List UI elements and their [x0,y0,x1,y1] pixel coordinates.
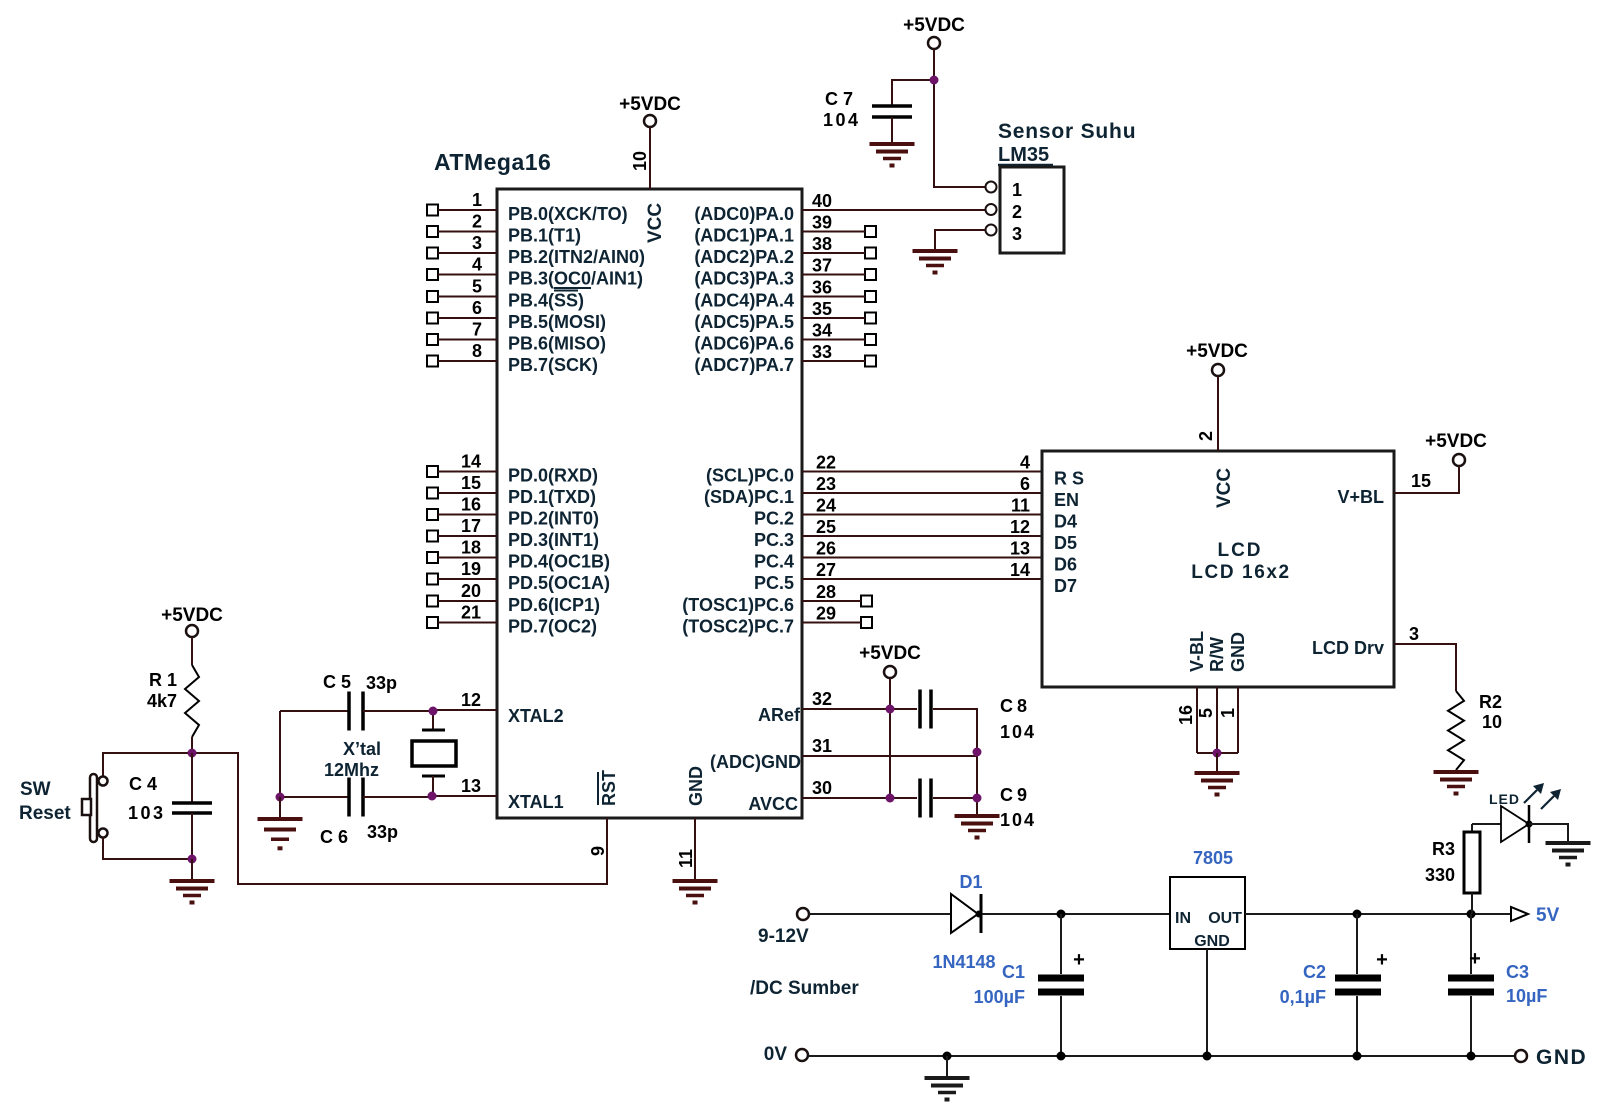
svg-text:3: 3 [472,233,482,253]
wire input to D1 [809,913,950,915]
svg-text:C8: C8 [1000,696,1031,716]
junction XTAL2/C5/crystal [429,707,438,716]
svg-text:8: 8 [472,341,482,361]
svg-text:C9: C9 [1000,785,1031,805]
wire junction to SW Reset top [103,753,192,777]
label D1 [959,872,982,892]
svg-text:PD.1(TXD): PD.1(TXD) [508,487,596,507]
wire VCC pin 10 [630,127,650,189]
wire GND pin 11 [676,818,696,881]
svg-text:36: 36 [812,278,832,298]
svg-text:4: 4 [472,255,482,275]
pin 36 (ADC4)PA.4 wire [802,278,876,303]
pin label PB.3(OC0/AIN1) [508,269,643,289]
resistor R2 [1448,691,1464,770]
pin label (ADC0)PA.0 [694,204,794,224]
wire left rail C5/C6 [279,711,281,797]
pin label VCC of LCD (rotated) [1214,468,1235,508]
pin label D7 of LCD [1054,576,1077,596]
pin label (ADC6)PA.6 [694,334,794,354]
svg-text:37: 37 [812,256,832,276]
pin 7 PB.6 wire and terminal [427,320,497,346]
svg-text:5V: 5V [1536,905,1560,926]
pin label PC.2 [754,509,794,529]
wire V-BL pin 16 [1176,687,1197,753]
svg-text:PD.4(OC1B): PD.4(OC1B) [508,552,610,572]
crystal X1 12Mhz [412,710,456,796]
svg-text:PD.0(RXD): PD.0(RXD) [508,466,598,486]
diode D1 1N4148 [951,894,983,933]
svg-text:LED: LED [1489,791,1520,807]
svg-text:13: 13 [461,776,481,796]
svg-text:PC.4: PC.4 [754,552,794,572]
svg-text:ARef: ARef [758,705,801,725]
svg-text:LM35: LM35 [998,144,1049,166]
svg-text:1: 1 [1012,180,1022,200]
svg-text:PB.1(T1): PB.1(T1) [508,226,581,246]
wire left rail to ground [279,797,281,819]
pin 6 PB.5 wire and terminal [427,298,497,324]
pin 39 (ADC1)PA.1 wire [802,213,876,238]
pin label (SCL)PC.0 [706,466,794,486]
junction +5VDC/C7 [930,76,939,85]
svg-text:PB.4(SS): PB.4(SS) [508,291,584,311]
pin 16 PD.2 wire and terminal [427,495,497,521]
pin label D5 of LCD [1054,533,1077,553]
pin 29 (TOSC2)PC.7 wire [802,604,872,629]
svg-text:(TOSC2)PC.7: (TOSC2)PC.7 [682,617,794,637]
label Xtal 12Mhz [324,739,381,780]
pin 34 (ADC6)PA.6 wire [802,321,876,346]
svg-text:18: 18 [461,538,481,558]
svg-text:D6: D6 [1054,555,1077,575]
resistor R3 [1464,824,1480,914]
svg-text:3: 3 [1012,224,1022,244]
svg-text:+5VDC: +5VDC [1425,431,1487,452]
svg-text:Sensor Suhu: Sensor Suhu [998,120,1136,143]
svg-text:PB.5(MOSI): PB.5(MOSI) [508,312,606,332]
wire R1 bottom to junction [191,737,193,753]
pin 25 PC.3 wire [802,517,1042,537]
svg-text:4k7: 4k7 [147,691,177,711]
pin label (ADC3)PA.3 [694,269,794,289]
svg-text:+5VDC: +5VDC [903,15,965,36]
junction R1/C4/SW [188,749,197,758]
svg-text:27: 27 [816,560,836,580]
svg-text:38: 38 [812,234,832,254]
svg-text:ATMega16: ATMega16 [434,149,551,175]
svg-text:R 1: R 1 [149,670,177,690]
wire C7 branch [892,80,934,106]
pin label (ADC1)PA.1 [694,226,794,246]
pin label (ADC7)PA.7 [694,355,794,375]
pin label PD.2(INT0) [508,509,599,529]
label /DC Sumber [750,978,859,999]
ground on bottom rail [925,1078,970,1102]
svg-text:VCC: VCC [1214,468,1235,508]
pin 35 (ADC5)PA.5 wire [802,299,876,324]
pin 33 (ADC7)PA.7 wire [802,342,876,367]
svg-text:4: 4 [1020,453,1030,473]
svg-text:40: 40 [812,191,832,211]
svg-text:104: 104 [1000,810,1036,830]
junction C9/ground rail [973,794,982,803]
power +5VDC terminal near ARef [859,643,921,678]
label 1N4148 [932,952,995,972]
svg-text:14: 14 [461,452,481,472]
junction C2/rail [1353,910,1362,919]
pin label PB.0(XCK/TO) [508,204,628,224]
pin label (SDA)PC.1 [704,487,794,507]
svg-text:PB.3(OC0/AIN1): PB.3(OC0/AIN1) [508,269,643,289]
pin label LCD Drv [1312,638,1384,658]
capacitor C1 (electrolytic) [1038,914,1085,1056]
svg-text:11: 11 [1011,496,1030,516]
pin label VCC (rotated) [645,203,666,243]
capacitor C6 [280,778,432,817]
wire XTAL2 pin 12 [433,690,497,710]
svg-text:2: 2 [1196,431,1216,441]
pin 20 PD.6 wire and terminal [427,581,497,607]
svg-text:PD.2(INT0): PD.2(INT0) [508,509,599,529]
svg-text:32: 32 [812,689,832,709]
svg-text:OUT: OUT [1208,910,1242,927]
svg-text:12Mhz: 12Mhz [324,760,379,780]
svg-text:PD.3(INT1): PD.3(INT1) [508,530,599,550]
pin 2 PB.1 wire and terminal [427,212,497,238]
label LCD 16x2 [1191,562,1290,583]
pin 1 PB.0 wire and terminal [427,190,497,216]
pin 28 (TOSC1)PC.6 wire [802,582,872,607]
capacitor C7 [872,106,912,117]
display U3 LCD body [1042,451,1394,687]
svg-text:C7: C7 [825,89,858,109]
svg-text:RST: RST [599,770,619,806]
pin 5 PB.4 wire and terminal [427,277,497,303]
svg-text:3: 3 [1409,624,1419,644]
terminal 0V input [764,1044,808,1065]
pin 17 PD.3 wire and terminal [427,516,497,542]
svg-text:C3: C3 [1506,962,1529,982]
pin 8 PB.7 wire and terminal [427,341,497,367]
svg-text:15: 15 [461,473,481,493]
svg-text:1: 1 [1218,708,1238,718]
svg-text:39: 39 [812,213,832,233]
label R3 330 [1425,839,1455,885]
svg-text:PC.5: PC.5 [754,573,794,593]
svg-text:C1: C1 [1002,962,1025,982]
svg-text:10µF: 10µF [1506,986,1547,1006]
svg-text:(ADC7)PA.7: (ADC7)PA.7 [694,355,794,375]
svg-text:7: 7 [472,320,482,340]
svg-text:25: 25 [816,517,836,537]
pin label PB.2(ITN2/AIN0) [508,247,645,267]
wire C7 to ground [891,117,893,144]
svg-text:(SDA)PC.1: (SDA)PC.1 [704,487,794,507]
pin label PD.4(OC1B) [508,552,610,572]
pin label EN of LCD [1054,490,1079,510]
label LM35 (underlined) [998,144,1053,166]
junction bottom rail ground stub [943,1052,952,1061]
junction LCD bottom pins [1213,749,1222,758]
svg-text:16: 16 [461,495,481,515]
pin label GND of LCD (rotated) [1228,632,1248,672]
svg-text:D1: D1 [959,872,982,892]
label C6 33p [320,822,398,847]
pin 3 LM35 terminal [986,225,997,236]
svg-text:X’tal: X’tal [343,739,381,759]
pin 24 PC.2 wire [802,496,1042,516]
label C4 103 [128,774,166,823]
pin label PD.3(INT1) [508,530,599,550]
svg-text:+: + [1469,948,1481,970]
pin label (ADC5)PA.5 [694,312,794,332]
svg-text:XTAL2: XTAL2 [508,706,564,726]
label R1 4k7 [147,670,177,711]
LED emission arrows [1524,783,1561,809]
wire GND pin 1 [1218,687,1238,753]
pin label PB.1(T1) [508,226,581,246]
svg-text:(ADC)GND: (ADC)GND [710,752,801,772]
pin label (ADC)GND [710,752,801,772]
svg-text:1N4148: 1N4148 [932,952,995,972]
resistor R1 [185,665,199,737]
pin 22 (SCL)PC.0 wire [802,453,1042,473]
power +5VDC terminal above VCC pin 10 [619,94,681,127]
svg-text:GND: GND [1536,1046,1587,1069]
svg-text:26: 26 [816,539,836,559]
terminal 9-12V input [758,908,809,947]
svg-text:R/W: R/W [1207,637,1227,672]
pin 4 PB.3 wire and terminal [427,255,497,281]
capacitor C4 [172,753,212,859]
ground under LM35 pin 3 [913,251,958,275]
switch SW Reset [82,774,108,842]
capacitor C8 [920,690,931,729]
svg-text:PD.7(OC2): PD.7(OC2) [508,617,597,637]
svg-text:6: 6 [1020,474,1030,494]
pin label D6 of LCD [1054,555,1077,575]
svg-text:R2: R2 [1479,692,1502,712]
pin label PD.1(TXD) [508,487,596,507]
svg-text:20: 20 [461,581,481,601]
svg-text:10: 10 [1482,712,1502,732]
pin label V+BL of LCD [1337,487,1384,507]
svg-text:Reset: Reset [19,803,71,824]
svg-text:PD.5(OC1A): PD.5(OC1A) [508,573,610,593]
label R2 10 [1479,692,1502,732]
svg-text:5: 5 [1196,708,1216,718]
ground under C4 [170,881,215,905]
pin label (TOSC2)PC.7 [682,617,794,637]
label LED [1489,791,1520,807]
pin label PD.7(OC2) [508,617,597,637]
wire LCD VCC pin 2 [1196,376,1218,451]
power +5VDC terminal above R1 [161,605,223,637]
wire AVCC pin 30 [802,778,917,798]
svg-text:PC.2: PC.2 [754,509,794,529]
wire +5VDC vertical to ARef/AVCC [889,678,891,798]
wire bottom rail 0V to GND [808,1055,1515,1057]
svg-text:17: 17 [461,516,481,536]
IC U1 ATMega16 body [497,189,802,818]
svg-text:16: 16 [1176,705,1196,725]
svg-text:1: 1 [472,190,482,210]
svg-text:(TOSC1)PC.6: (TOSC1)PC.6 [682,595,794,615]
svg-text:D4: D4 [1054,512,1077,532]
capacitor C3 (electrolytic) [1448,914,1494,1056]
wire joining LCD bottom pins [1197,752,1238,754]
pin label PD.6(ICP1) [508,595,600,615]
ground under LCD [1195,773,1240,797]
pin 40 (ADC0)PA.0 wire [802,191,985,211]
wire (ADC)GND pin 31 [802,736,977,756]
label SW Reset [19,779,71,824]
pin 38 (ADC2)PA.2 wire [802,234,876,259]
wire 7805 GND to bottom rail [1206,949,1208,1056]
ground under R2 [1434,772,1479,796]
svg-text:15: 15 [1411,471,1431,491]
svg-text:103: 103 [128,803,166,823]
svg-text:IN: IN [1175,910,1191,927]
capacitor C2 (electrolytic) [1335,914,1388,1056]
pin 23 (SDA)PC.1 wire [802,474,1042,494]
svg-text:2: 2 [472,212,482,232]
power +5VDC terminal top [903,15,965,49]
junction C4 bottom [188,855,197,864]
svg-text:11: 11 [676,849,696,868]
junction C2 bottom [1353,1052,1362,1061]
pin label PB.6(MISO) [508,334,606,354]
wire SW Reset bottom to C4 junction [103,837,192,859]
power +5VDC terminal above LCD VCC [1186,341,1248,376]
junction ARef/+5VDC [886,705,895,714]
svg-text:(ADC1)PA.1: (ADC1)PA.1 [694,226,794,246]
pin 26 PC.4 wire [802,539,1042,559]
junction C1 bottom [1057,1052,1066,1061]
svg-text:10: 10 [630,151,650,171]
svg-text:31: 31 [812,736,832,756]
svg-text:PB.6(MISO): PB.6(MISO) [508,334,606,354]
pin label PB.7(SCK) [508,355,598,375]
pin label ARef [758,705,801,725]
label C8 104 [1000,696,1036,742]
svg-text:R3: R3 [1432,839,1455,859]
svg-text:9: 9 [588,846,608,856]
wire V+BL pin 15 [1394,466,1459,493]
svg-text:24: 24 [816,496,836,516]
svg-text:PC.3: PC.3 [754,530,794,550]
label LCD [1217,540,1262,561]
svg-text:(SCL)PC.0: (SCL)PC.0 [706,466,794,486]
wire C8 to ground rail [933,709,977,816]
svg-text:C 6: C 6 [320,827,348,847]
pin label XTAL2 [508,706,564,726]
svg-text:5: 5 [472,277,482,297]
pin label RST (rotated, overline) [598,770,619,806]
junction 7805 GND bottom [1203,1052,1212,1061]
svg-text:LCD Drv: LCD Drv [1312,638,1384,658]
pin label GND (rotated) [686,766,706,806]
svg-text:7805: 7805 [1193,848,1233,868]
svg-text:0,1µF: 0,1µF [1280,987,1326,1007]
ground under crystal rail [258,819,303,850]
svg-text:GND: GND [1228,632,1248,672]
svg-text:33p: 33p [367,822,398,842]
pin label V-BL of LCD (rotated) [1187,631,1207,672]
pin 1 LM35 terminal [986,182,997,193]
svg-text:PB.0(XCK/TO): PB.0(XCK/TO) [508,204,628,224]
pin label PC.3 [754,530,794,550]
pin 37 (ADC3)PA.3 wire [802,256,876,281]
ground under pin 11 [673,881,718,905]
svg-text:LCD: LCD [1217,540,1262,561]
svg-text:28: 28 [816,582,836,602]
svg-text:12: 12 [1010,517,1030,537]
junction C3/R3/rail [1467,910,1476,919]
wire +5VDC to R1 [191,637,193,665]
svg-text:PD.6(ICP1): PD.6(ICP1) [508,595,600,615]
ground under C7 [870,144,915,168]
terminal GND output [1515,1046,1587,1069]
label C1 100uF [974,962,1025,1007]
pin label D4 of LCD [1054,512,1077,532]
wire ground stub [946,1056,948,1078]
label C7 104 [823,89,861,130]
svg-text:+5VDC: +5VDC [1186,341,1248,362]
svg-text:33: 33 [812,342,832,362]
pin label PD.5(OC1A) [508,573,610,593]
svg-text:33p: 33p [366,673,397,693]
svg-text:+5VDC: +5VDC [859,643,921,664]
junction left rail / ground [276,793,285,802]
wire LCD bottom pins to ground [1216,753,1218,773]
svg-text:+: + [1073,949,1085,971]
junction ADC GND rail [973,748,982,757]
svg-text:(ADC6)PA.6: (ADC6)PA.6 [694,334,794,354]
svg-text:30: 30 [812,778,832,798]
regulator U4 7805 [1170,877,1245,950]
svg-text:21: 21 [461,603,481,623]
LED D2 [1472,805,1568,843]
label C2 0,1uF [1280,962,1326,1007]
svg-text:19: 19 [461,559,481,579]
pin 14 PD.0 wire and terminal [427,452,497,478]
svg-text:104: 104 [823,110,861,130]
pin 2 LM35 terminal [986,204,997,215]
pin 27 PC.5 wire [802,560,1042,580]
svg-text:0V: 0V [764,1044,788,1065]
label C9 104 [1000,785,1036,830]
svg-text:GND: GND [1194,933,1230,950]
pin 3 PB.2 wire and terminal [427,233,497,259]
svg-text:D7: D7 [1054,576,1077,596]
svg-text:23: 23 [816,474,836,494]
pin 21 PD.7 wire and terminal [427,603,497,629]
junction XTAL1/C6/crystal [428,792,437,801]
svg-text:LCD 16x2: LCD 16x2 [1191,562,1290,583]
wire D1 to 7805 IN [982,913,1170,915]
svg-text:PB.2(ITN2/AIN0): PB.2(ITN2/AIN0) [508,247,645,267]
label Sensor Suhu [998,120,1136,143]
pin 18 PD.4 wire and terminal [427,538,497,564]
svg-text:330: 330 [1425,865,1455,885]
svg-text:(ADC3)PA.3: (ADC3)PA.3 [694,269,794,289]
svg-text:2: 2 [1012,202,1022,222]
pin label XTAL1 [508,792,564,812]
svg-text:AVCC: AVCC [748,794,798,814]
svg-text:C 4: C 4 [129,774,157,794]
